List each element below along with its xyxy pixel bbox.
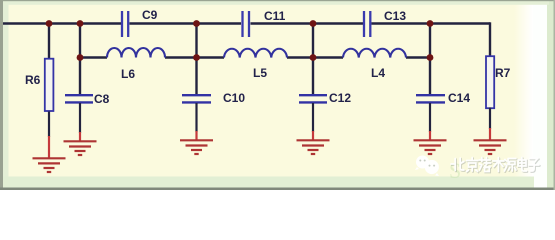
- wire: R7 lower lead: [489, 108, 491, 130]
- page background: [0, 0, 555, 190]
- svg-text:C14: C14: [448, 91, 470, 105]
- wire: top rail C13 to output corner: [372, 22, 491, 25]
- capacitor C11: [243, 11, 250, 37]
- svg-text:C12: C12: [329, 91, 351, 105]
- svg-text:L4: L4: [371, 66, 385, 80]
- watermark text 北京落木源电子 (hand drawn strokes): [452, 158, 540, 172]
- wire: inductor rail, L6 to L5: [165, 56, 224, 58]
- 电: [519, 158, 527, 172]
- svg-text:C8: C8: [94, 92, 110, 106]
- ground (under C10): [180, 131, 213, 154]
- wire: C8 lower lead: [79, 103, 81, 133]
- wire: top rail C9 to C11: [130, 22, 242, 25]
- capacitor C8: [65, 95, 93, 102]
- 子: [529, 159, 539, 172]
- 京: [467, 158, 478, 172]
- svg-text:R7: R7: [495, 66, 511, 80]
- 木: [493, 158, 504, 172]
- capacitor C13: [364, 11, 370, 37]
- svg-text:L6: L6: [121, 67, 135, 81]
- resistor R7: [486, 56, 494, 108]
- resistor R6: [45, 59, 54, 111]
- 落: [479, 158, 491, 172]
- 源: [505, 159, 517, 172]
- node: junction on inductor rail at C14 drop: [427, 54, 434, 61]
- ground (under C8): [64, 132, 97, 155]
- node: junction on top rail at C12 drop: [310, 20, 317, 27]
- capacitor C9: [122, 11, 128, 37]
- wire: drop to R6: [48, 22, 50, 59]
- node: junction on top rail at R6 drop: [46, 20, 53, 27]
- node: junction on inductor rail at C10 drop: [193, 54, 200, 61]
- wire: output drop to R7: [489, 22, 491, 57]
- wire: inductor rail, node to L6: [80, 56, 107, 58]
- wire: top rail C11 to C13: [251, 22, 364, 25]
- node: junction on top rail at C10 drop: [193, 20, 200, 27]
- 落: [480, 158, 492, 172]
- svg-text:C9: C9: [142, 8, 158, 22]
- 电: [518, 158, 526, 172]
- svg-text:C11: C11: [264, 9, 286, 23]
- inductor L4: [343, 49, 406, 58]
- wire: C10 lower lead: [195, 103, 197, 132]
- ground (under C12): [297, 131, 330, 154]
- svg-text:L5: L5: [253, 66, 267, 80]
- 北: [452, 159, 465, 172]
- node: junction on top rail at C14 drop: [427, 20, 434, 27]
- wire: input segment of top rail: [3, 22, 121, 25]
- ground (under C14): [414, 131, 447, 154]
- capacitor C10: [182, 95, 211, 102]
- wire: inductor rail, L4 to node: [406, 56, 430, 58]
- node: junction on inductor rail at C12 drop: [310, 54, 317, 61]
- wire: drop to C12: [312, 22, 314, 94]
- wire: C12 lower lead: [312, 103, 314, 132]
- svg-text:C10: C10: [223, 91, 245, 105]
- 北: [451, 158, 464, 171]
- 源: [504, 159, 516, 172]
- wire: R6 lower lead: [48, 112, 50, 138]
- wire: drop to C10: [195, 22, 197, 94]
- wire: drop to C8: [79, 22, 81, 94]
- 子: [530, 159, 540, 172]
- ground (under R6): [33, 136, 66, 172]
- node: junction on inductor rail at C8 drop: [77, 54, 84, 61]
- inductor L6: [107, 48, 165, 57]
- wire: inductor rail, L5 to L4: [287, 56, 343, 58]
- capacitor C12: [299, 95, 327, 102]
- svg-text:R6: R6: [25, 73, 41, 87]
- wire: C14 lower lead: [429, 103, 431, 132]
- inductor L5: [224, 49, 287, 58]
- ground (under R7): [474, 128, 507, 154]
- svg-text:C13: C13: [384, 9, 406, 23]
- 木: [494, 158, 505, 172]
- capacitor C14: [416, 95, 445, 102]
- watermark logo (chat bubbles): [415, 156, 439, 177]
- wire: drop to C14: [429, 22, 431, 94]
- node: junction on top rail at C8 drop: [77, 20, 84, 27]
- 京: [467, 158, 478, 172]
